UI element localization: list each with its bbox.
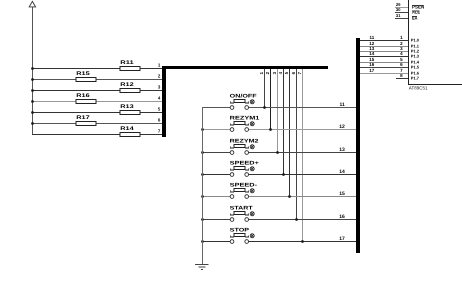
- svg-text:R12: R12: [120, 82, 134, 88]
- svg-text:12: 12: [339, 124, 345, 130]
- svg-text:14: 14: [339, 169, 345, 175]
- svg-text:15: 15: [339, 191, 345, 197]
- svg-text:ALE: ALE: [412, 10, 420, 15]
- svg-text:R15: R15: [76, 71, 90, 77]
- svg-text:R16: R16: [76, 93, 90, 99]
- svg-text:SPEED-: SPEED-: [230, 183, 258, 189]
- svg-text:17: 17: [369, 68, 375, 73]
- svg-text:AT89C51: AT89C51: [409, 86, 428, 91]
- svg-text:REZYM1: REZYM1: [230, 116, 260, 122]
- svg-text:STOP: STOP: [230, 228, 250, 234]
- svg-text:P1.0: P1.0: [411, 38, 420, 43]
- svg-text:17: 17: [339, 236, 345, 242]
- svg-text:P1.5: P1.5: [411, 65, 420, 70]
- svg-text:11: 11: [340, 102, 346, 108]
- svg-text:30: 30: [396, 7, 401, 12]
- svg-text:ON/OFF: ON/OFF: [230, 94, 257, 100]
- svg-text:16: 16: [339, 214, 345, 220]
- svg-text:13: 13: [339, 147, 345, 153]
- svg-text:R14: R14: [120, 126, 134, 132]
- svg-text:P1.7: P1.7: [411, 76, 420, 81]
- svg-text:REZYM2: REZYM2: [230, 139, 259, 145]
- svg-text:P1.3: P1.3: [411, 54, 420, 59]
- svg-text:SPEED+: SPEED+: [230, 161, 259, 167]
- svg-text:R11: R11: [120, 60, 134, 66]
- svg-text:14: 14: [369, 51, 375, 56]
- svg-text:R17: R17: [76, 115, 90, 121]
- svg-text:16: 16: [369, 62, 375, 67]
- svg-text:START: START: [230, 206, 254, 212]
- svg-text:11: 11: [370, 35, 375, 40]
- svg-text:31: 31: [396, 13, 401, 18]
- svg-text:R13: R13: [120, 104, 134, 110]
